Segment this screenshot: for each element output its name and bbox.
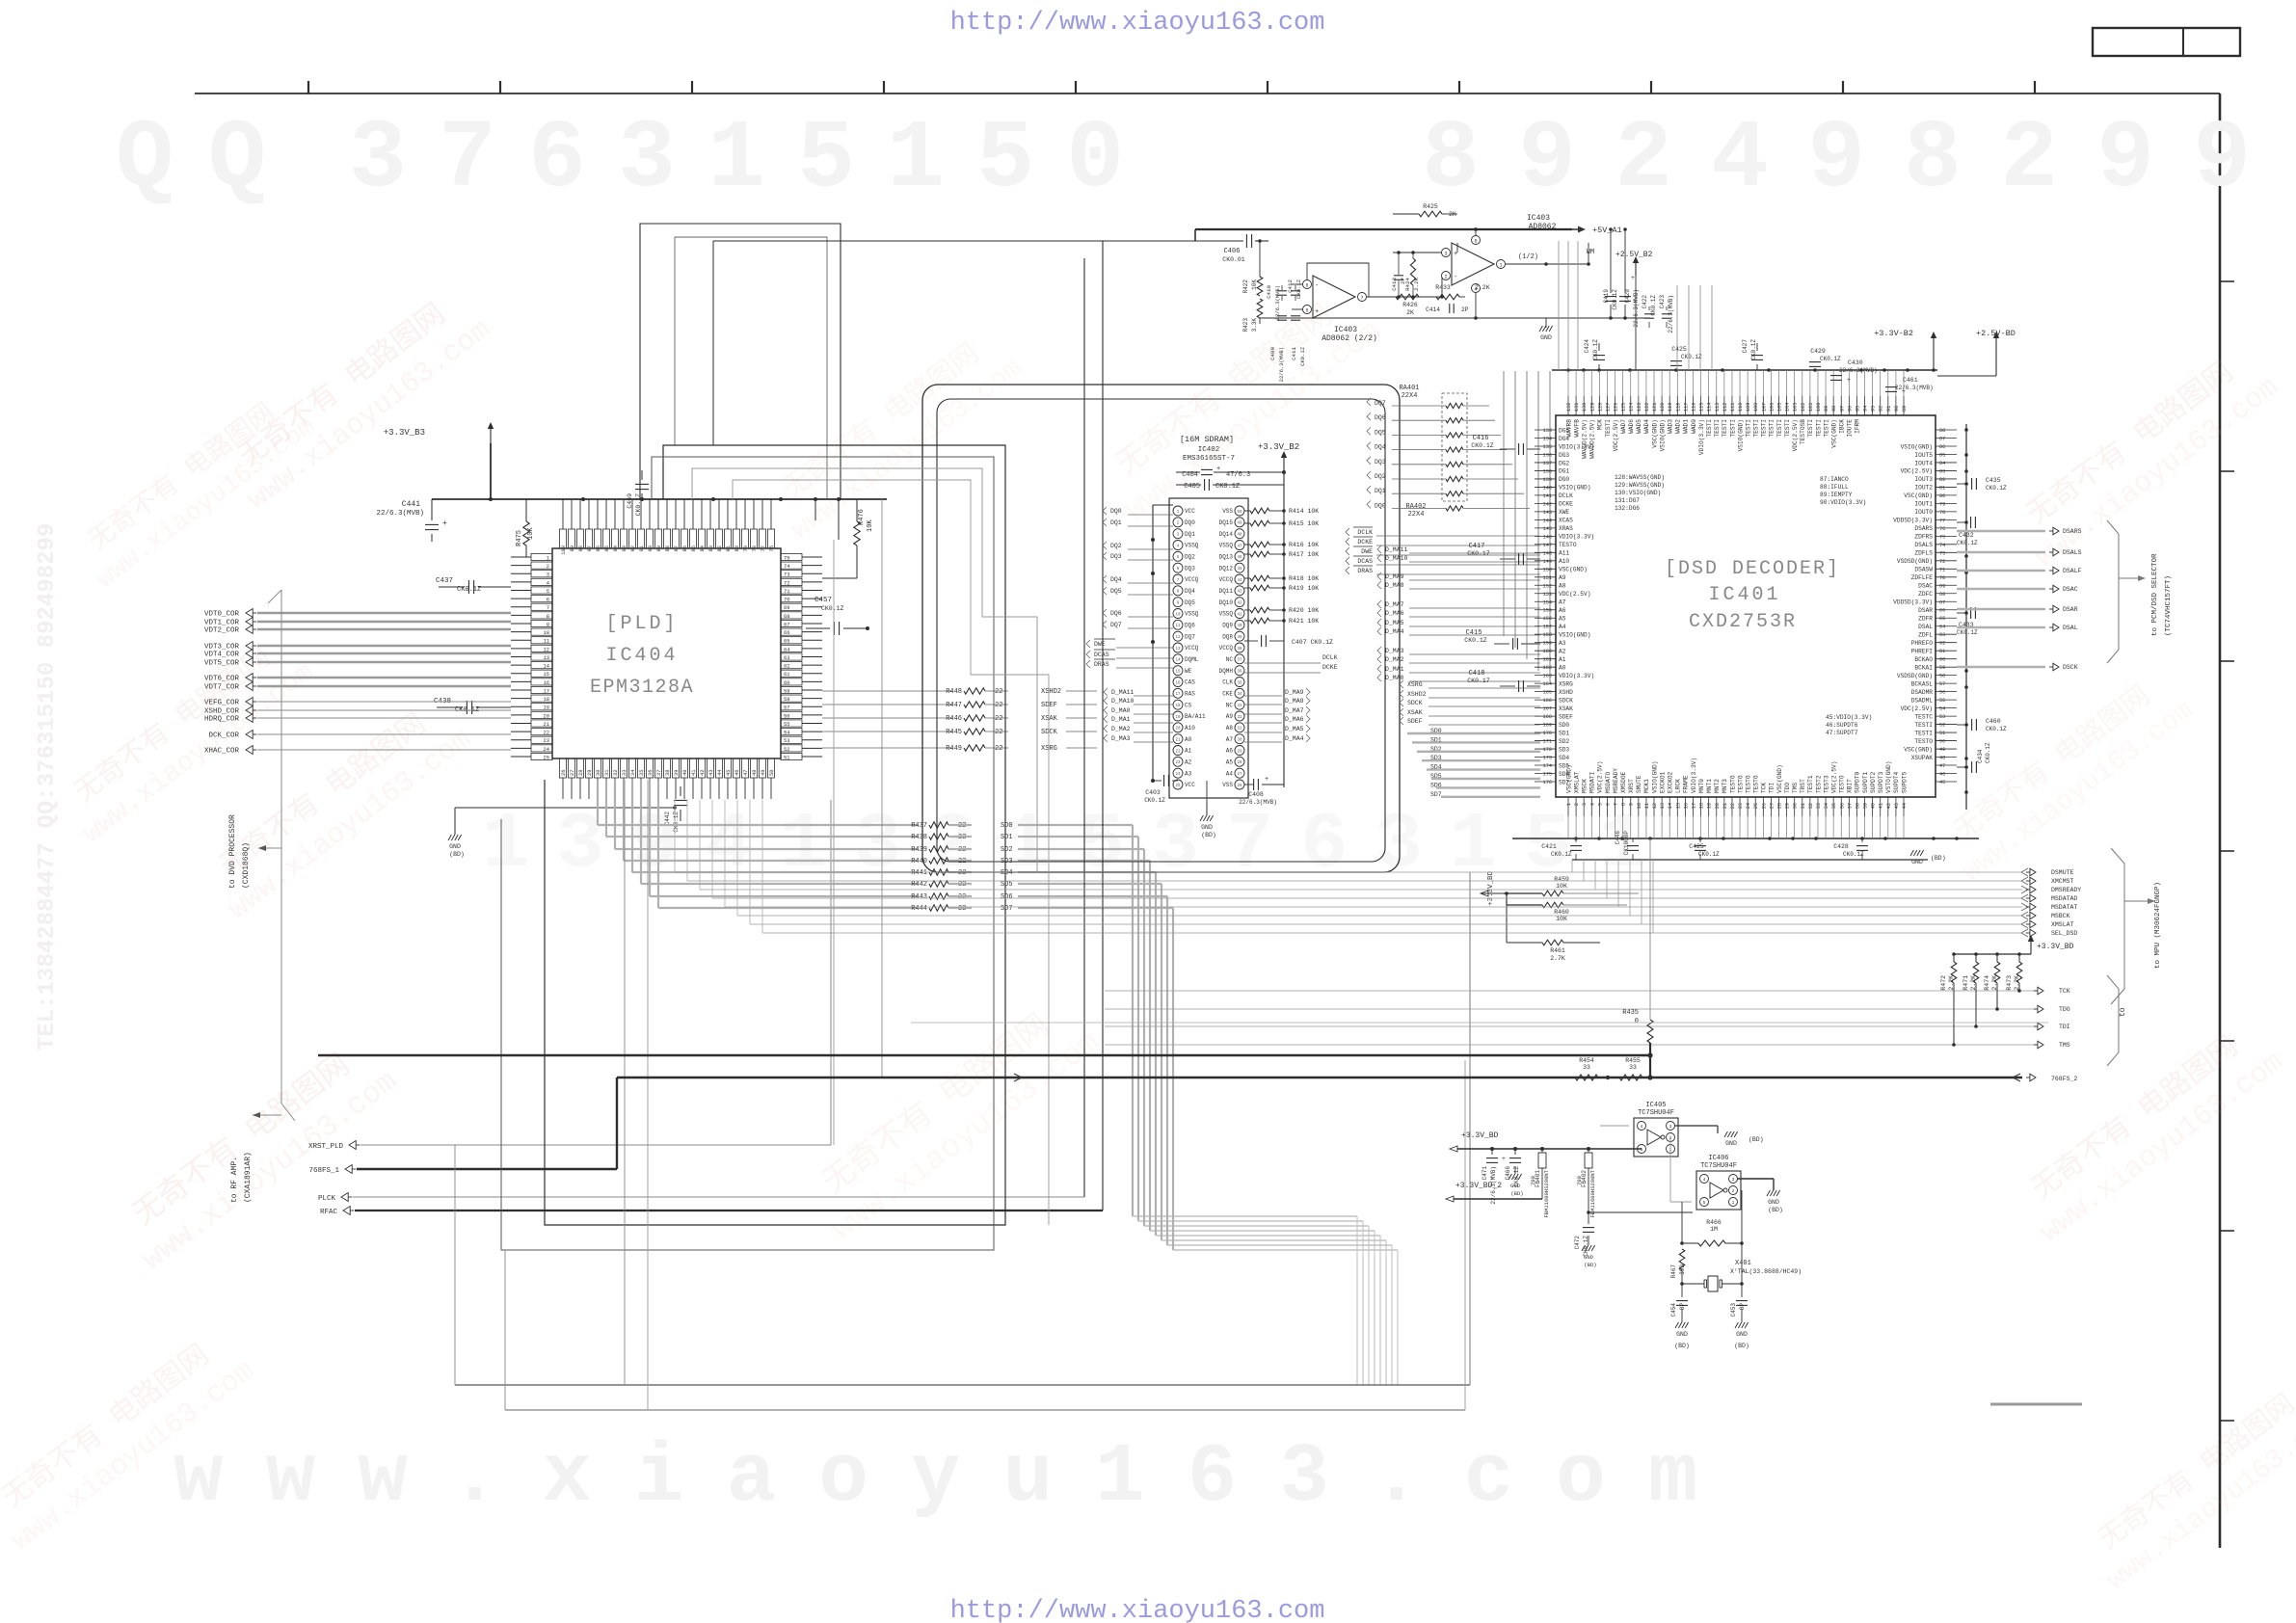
svg-text:R439: R439 — [911, 846, 927, 854]
svg-text:DG2: DG2 — [1559, 460, 1569, 466]
svg-text:VDT4_COR: VDT4_COR — [204, 652, 240, 659]
svg-text:DSARS: DSARS — [2063, 528, 2082, 535]
svg-text:30: 30 — [1237, 738, 1242, 742]
svg-text:TCK: TCK — [2059, 988, 2070, 995]
svg-text:115: 115 — [1699, 403, 1705, 412]
svg-text:VSC(GND): VSC(GND) — [1651, 419, 1658, 448]
svg-text:A0: A0 — [1559, 664, 1566, 671]
svg-text:128: 128 — [1597, 403, 1603, 412]
svg-text:51: 51 — [784, 755, 789, 760]
svg-text:113: 113 — [1715, 403, 1721, 412]
svg-text:85: 85 — [1939, 452, 1945, 458]
svg-text:99: 99 — [570, 545, 575, 551]
svg-text:159: 159 — [1543, 641, 1552, 647]
svg-text:21: 21 — [1722, 803, 1728, 809]
svg-text:TDO: TDO — [1784, 783, 1791, 793]
capacitor C460 — [1957, 724, 1968, 726]
svg-text:RA402: RA402 — [1405, 503, 1426, 511]
svg-text:44: 44 — [717, 770, 723, 776]
node DSAR output — [1957, 608, 2045, 611]
svg-text:WAD3: WAD3 — [1668, 419, 1674, 434]
svg-text:CK0.1Z: CK0.1Z — [1986, 485, 2007, 492]
svg-text:2: 2 — [1574, 803, 1580, 806]
svg-text:A10: A10 — [1559, 558, 1569, 565]
svg-text:XMSDOE: XMSDOE — [1620, 771, 1627, 793]
node XMSLAT (to MPU) — [750, 923, 2022, 925]
svg-text:7: 7 — [547, 605, 549, 611]
svg-text:VSSQ: VSSQ — [1185, 543, 1199, 549]
svg-text:4: 4 — [1703, 1177, 1706, 1183]
svg-text:RA401: RA401 — [1399, 385, 1419, 392]
svg-text:65: 65 — [784, 639, 789, 645]
svg-text:69: 69 — [784, 605, 789, 611]
svg-text:28: 28 — [578, 770, 584, 776]
svg-text:35: 35 — [639, 770, 645, 776]
svg-text:DQ6: DQ6 — [1185, 623, 1195, 629]
svg-text:HDRQ_COR: HDRQ_COR — [204, 716, 240, 724]
svg-text:2.2K: 2.2K — [1475, 284, 1490, 291]
svg-text:96: 96 — [596, 545, 601, 551]
svg-text:R435: R435 — [1622, 1009, 1639, 1017]
svg-text:C410: C410 — [1266, 284, 1272, 298]
svg-text:C435: C435 — [1986, 477, 2001, 484]
svg-text:TEST3: TEST3 — [1823, 775, 1829, 793]
svg-text:DQ0: DQ0 — [1185, 519, 1195, 526]
svg-text:R414 10K: R414 10K — [1289, 508, 1319, 515]
svg-text:24: 24 — [544, 747, 549, 753]
wire op-amp out to WM — [1588, 264, 1589, 370]
svg-text:A6: A6 — [1226, 748, 1234, 755]
svg-text:TRST: TRST — [1800, 779, 1806, 793]
svg-text:GND: GND — [1725, 1140, 1737, 1147]
svg-text:XSAK: XSAK — [1041, 715, 1058, 723]
svg-text:26: 26 — [561, 770, 567, 776]
svg-text:WAVDD(2.5V): WAVDD(2.5V) — [1581, 419, 1588, 459]
svg-text:138: 138 — [1543, 468, 1552, 474]
svg-text:TESTI: TESTI — [1722, 419, 1728, 438]
svg-text:A2: A2 — [1185, 759, 1192, 766]
svg-text:48: 48 — [1237, 533, 1242, 537]
wire op-amp gnd rail — [1260, 317, 1650, 319]
svg-text:90:VDIO(3.3V): 90:VDIO(3.3V) — [1820, 499, 1866, 506]
svg-text:SD6: SD6 — [1001, 893, 1013, 901]
svg-text:D_MA10: D_MA10 — [1385, 555, 1408, 562]
svg-text:TESTO: TESTO — [1914, 738, 1933, 745]
svg-text:GND: GND — [1911, 859, 1923, 865]
svg-text:36: 36 — [648, 770, 654, 776]
svg-text:WAD5: WAD5 — [1636, 419, 1642, 434]
svg-text:VDT3_COR: VDT3_COR — [204, 644, 240, 652]
svg-text:FRAME: FRAME — [1683, 775, 1690, 793]
svg-text:+: + — [1847, 377, 1851, 384]
node TMS (JTAG) — [1105, 1044, 2036, 1046]
IC IC401 CXD2753R [DSD DECODER] — [1556, 415, 1936, 797]
svg-text:DCKE: DCKE — [1357, 539, 1373, 545]
svg-text:C427: C427 — [1742, 339, 1749, 354]
svg-text:FBMJ1608HS280NT: FBMJ1608HS280NT — [1543, 1169, 1550, 1217]
svg-text:RAS: RAS — [1185, 691, 1195, 698]
svg-text:97: 97 — [587, 545, 593, 551]
svg-text:[DSD DECODER]: [DSD DECODER] — [1665, 558, 1840, 580]
svg-text:DQ6: DQ6 — [1110, 610, 1122, 617]
svg-text:CK0.1Z: CK0.1Z — [1985, 742, 1991, 763]
svg-text:DSADMR: DSADMR — [1911, 689, 1934, 696]
svg-text:8P: 8P — [1739, 1303, 1746, 1311]
title block — [2093, 28, 2240, 56]
svg-text:VDT0_COR: VDT0_COR — [204, 611, 240, 619]
svg-text:152: 152 — [1543, 583, 1552, 589]
svg-text:59: 59 — [1939, 665, 1945, 671]
capacitor C435 — [1957, 483, 1968, 485]
resistor R442 22 (SD5) — [641, 883, 918, 885]
svg-text:26: 26 — [1761, 803, 1767, 809]
svg-text:BCKAO: BCKAO — [1914, 656, 1933, 663]
svg-text:CK0.1Z: CK0.1Z — [1843, 851, 1864, 858]
svg-text:98: 98 — [578, 545, 584, 551]
svg-text:118: 118 — [1675, 403, 1681, 412]
svg-text:22: 22 — [995, 729, 1002, 736]
capacitor C434 — [1957, 766, 1968, 768]
svg-text:10K: 10K — [1556, 916, 1567, 922]
svg-text:46: 46 — [1237, 556, 1242, 560]
svg-text:XSHD: XSHD — [1559, 689, 1573, 696]
svg-text:8: 8 — [547, 614, 549, 620]
svg-text:26: 26 — [1237, 785, 1242, 788]
svg-text:32: 32 — [1237, 716, 1242, 720]
svg-text:C424: C424 — [1584, 339, 1590, 354]
svg-text:55: 55 — [784, 722, 789, 728]
svg-text:R445: R445 — [946, 729, 962, 736]
svg-text:TESTI: TESTI — [1815, 419, 1822, 438]
svg-text:CS: CS — [1185, 702, 1192, 708]
svg-text:85: 85 — [691, 545, 697, 551]
svg-text:90: 90 — [1894, 406, 1900, 412]
svg-text:22X4: 22X4 — [1402, 392, 1418, 400]
svg-text:WAVRB: WAVRB — [1565, 419, 1572, 438]
svg-text:D_MA1: D_MA1 — [1111, 716, 1131, 723]
resistor R416 10K — [1244, 544, 1250, 545]
svg-text:44: 44 — [1902, 803, 1908, 809]
svg-text:MSDATO: MSDATO — [1605, 771, 1612, 793]
svg-text:R418 10K: R418 10K — [1289, 575, 1319, 582]
svg-text:32: 32 — [1808, 803, 1814, 809]
IC IC402 EMS36165ST-7 [16M SDRAM] — [1169, 498, 1248, 798]
svg-text:146: 146 — [1543, 534, 1552, 540]
svg-text:TDI: TDI — [2059, 1024, 2070, 1030]
svg-text:43: 43 — [708, 770, 714, 776]
svg-text:SD7: SD7 — [1430, 791, 1442, 798]
svg-text:+2.5V_B2: +2.5V_B2 — [1615, 251, 1653, 259]
svg-text:R415 10K: R415 10K — [1289, 520, 1319, 527]
svg-text:VCC: VCC — [1185, 782, 1195, 788]
svg-text:C460: C460 — [1986, 718, 2001, 725]
svg-text:C442: C442 — [664, 811, 671, 826]
node MSDATAT (to MPU) — [725, 906, 2022, 908]
svg-text:54: 54 — [784, 731, 789, 736]
wire IC406 input feedback — [1692, 1206, 1694, 1212]
svg-text:30: 30 — [1793, 803, 1799, 809]
svg-text:MSBCK: MSBCK — [2051, 913, 2070, 919]
svg-text:WAD6: WAD6 — [1628, 419, 1635, 434]
svg-text:WAD7: WAD7 — [1620, 419, 1627, 434]
svg-text:58: 58 — [784, 697, 789, 703]
svg-text:87: 87 — [674, 545, 680, 551]
svg-text:(BD): (BD) — [1584, 1262, 1596, 1268]
svg-text:R447: R447 — [946, 702, 962, 709]
svg-text:SDEF: SDEF — [1407, 718, 1423, 725]
svg-text:CK0.17: CK0.17 — [1467, 550, 1490, 557]
svg-text:8: 8 — [1621, 803, 1627, 806]
svg-text:VDT1_COR: VDT1_COR — [204, 620, 240, 627]
svg-text:(BD): (BD) — [1201, 832, 1216, 838]
svg-text:42: 42 — [1886, 803, 1892, 809]
svg-text:CK0.1Z: CK0.1Z — [1464, 637, 1487, 644]
svg-text:13: 13 — [1660, 803, 1666, 809]
svg-text:SD0: SD0 — [1001, 822, 1013, 830]
svg-text:33: 33 — [622, 770, 627, 776]
svg-text:(BD): (BD) — [449, 851, 465, 858]
svg-text:R425: R425 — [1423, 203, 1438, 210]
svg-text:R466: R466 — [1706, 1219, 1722, 1226]
svg-text:DQML: DQML — [1185, 656, 1199, 663]
svg-text:109: 109 — [1746, 403, 1751, 412]
svg-text:D_MA2: D_MA2 — [1385, 656, 1404, 663]
node SEL_DSD (to MPU) — [762, 932, 2022, 934]
svg-text:126: 126 — [1614, 403, 1619, 412]
svg-text:A4: A4 — [1559, 624, 1566, 630]
svg-text:DCK_COR: DCK_COR — [208, 732, 239, 740]
node DSAC output — [1957, 588, 2045, 591]
svg-text:53: 53 — [784, 738, 789, 744]
svg-text:C472: C472 — [1574, 1236, 1581, 1250]
svg-text:167: 167 — [1543, 706, 1552, 712]
svg-text:DQ4: DQ4 — [1110, 576, 1122, 583]
node TDI (JTAG) — [1105, 1025, 2036, 1027]
svg-text:51: 51 — [1939, 731, 1945, 736]
svg-text:VDC(2.5V): VDC(2.5V) — [1613, 419, 1619, 451]
svg-text:SD1: SD1 — [1559, 730, 1569, 736]
node MSDATAD (to MPU) — [712, 897, 2022, 899]
svg-text:2K: 2K — [1406, 309, 1414, 316]
svg-text:R443: R443 — [911, 893, 927, 901]
svg-text:DSARS: DSARS — [1914, 525, 1933, 532]
svg-text:77: 77 — [1939, 518, 1945, 523]
svg-text:VSC(GND): VSC(GND) — [1559, 567, 1588, 573]
svg-text:110: 110 — [1738, 403, 1744, 412]
svg-text:22/6.3(MVB): 22/6.3(MVB) — [1839, 367, 1878, 374]
svg-text:R423: R423 — [1242, 318, 1249, 333]
svg-text:XSHD2: XSHD2 — [1041, 688, 1061, 696]
svg-text:SDCK: SDCK — [1407, 700, 1423, 706]
svg-text:C406: C406 — [1224, 248, 1241, 255]
svg-text:768FS_1: 768FS_1 — [308, 1167, 339, 1175]
svg-text:76: 76 — [1939, 526, 1945, 532]
svg-text:GND: GND — [1736, 1331, 1748, 1338]
svg-text:22X4: 22X4 — [1408, 511, 1425, 519]
svg-text:R441: R441 — [911, 869, 927, 877]
svg-text:SUPDT2: SUPDT2 — [1870, 771, 1877, 793]
wire IC401 right rail — [1965, 424, 1967, 810]
svg-text:11: 11 — [544, 639, 549, 645]
svg-text:R438: R438 — [911, 834, 927, 841]
svg-text:84: 84 — [1939, 461, 1945, 466]
svg-text:VSIO(GND): VSIO(GND) — [1559, 632, 1590, 639]
svg-text:DQMH: DQMH — [1219, 668, 1234, 675]
svg-text:D_MA11: D_MA11 — [1385, 546, 1408, 553]
wire vertical bundle left of IC401 — [1503, 371, 1505, 636]
svg-text:TESTO: TESTO — [1737, 775, 1744, 793]
svg-text:90: 90 — [648, 545, 654, 551]
svg-text:53: 53 — [1939, 714, 1945, 720]
capacitor C408 22/6.3(MVB) — [1244, 784, 1253, 785]
svg-text:22: 22 — [1730, 803, 1736, 809]
svg-text:DQ11: DQ11 — [1219, 588, 1234, 595]
svg-text:R475: R475 — [516, 530, 523, 546]
svg-text:77: 77 — [761, 545, 766, 551]
svg-text:1: 1 — [547, 555, 549, 561]
svg-text:83: 83 — [708, 545, 714, 551]
svg-text:TESTI: TESTI — [1745, 419, 1751, 438]
svg-text:129: 129 — [1589, 403, 1595, 412]
svg-text:R460: R460 — [1554, 909, 1569, 916]
svg-text:12: 12 — [544, 647, 549, 652]
svg-text:68: 68 — [1939, 592, 1945, 598]
resistor R443 22 (SD6) — [650, 895, 918, 897]
svg-text:87:IANCO: 87:IANCO — [1820, 476, 1849, 483]
svg-text:153: 153 — [1543, 592, 1552, 598]
svg-text:91: 91 — [639, 545, 645, 551]
svg-text:R474: R474 — [1984, 975, 1990, 991]
svg-text:XRAS: XRAS — [1559, 525, 1573, 532]
svg-text:91: 91 — [1886, 406, 1892, 412]
svg-text:(BD): (BD) — [1510, 1190, 1523, 1197]
svg-text:83: 83 — [1939, 468, 1945, 474]
svg-text:148: 148 — [1543, 550, 1552, 556]
resistor R415 10K — [1244, 522, 1250, 524]
svg-text:D_MA4: D_MA4 — [1385, 628, 1404, 635]
svg-text:R426: R426 — [1402, 302, 1418, 308]
svg-text:XWE: XWE — [1559, 509, 1569, 516]
svg-text:1: 1 — [1566, 803, 1572, 806]
svg-text:R461: R461 — [1550, 947, 1565, 954]
svg-text:IC403: IC403 — [1527, 214, 1550, 223]
svg-text:D_MA7: D_MA7 — [1385, 601, 1404, 608]
svg-text:127: 127 — [1605, 403, 1611, 412]
svg-text:X401: X401 — [1735, 1260, 1751, 1267]
svg-text:64: 64 — [784, 647, 789, 652]
svg-text:DQ9: DQ9 — [1222, 623, 1233, 629]
svg-text:C405: C405 — [1184, 483, 1200, 491]
svg-text:R459: R459 — [1554, 876, 1569, 883]
svg-text:170: 170 — [1543, 731, 1552, 736]
svg-text:39: 39 — [1863, 803, 1869, 809]
svg-text:TESTI: TESTI — [1784, 419, 1791, 438]
svg-text:(BD): (BD) — [1931, 855, 1946, 862]
svg-text:38: 38 — [1237, 648, 1242, 652]
svg-text:XSHD2: XSHD2 — [1407, 691, 1427, 698]
svg-text:SD2: SD2 — [1001, 846, 1013, 854]
svg-text:86: 86 — [682, 545, 688, 551]
svg-text:D_MA7: D_MA7 — [1285, 707, 1304, 714]
svg-text:14: 14 — [544, 664, 549, 670]
svg-text:XMSLAT: XMSLAT — [1573, 771, 1580, 793]
svg-text:DSAL: DSAL — [2063, 625, 2078, 631]
svg-text:D_MA0: D_MA0 — [1385, 675, 1404, 681]
svg-text:ZDFRS: ZDFRS — [1914, 534, 1933, 541]
svg-text:42: 42 — [1237, 601, 1242, 605]
svg-text:DSADML: DSADML — [1911, 697, 1934, 704]
svg-text:22/6.3(MVB): 22/6.3(MVB) — [1490, 1166, 1497, 1205]
svg-text:50: 50 — [1939, 739, 1945, 745]
svg-text:VCC: VCC — [1185, 508, 1195, 515]
svg-text:D_MA3: D_MA3 — [1385, 648, 1404, 654]
svg-text:47: 47 — [1939, 763, 1945, 769]
svg-text:VSC(GND): VSC(GND) — [1830, 419, 1837, 448]
svg-text:CK0.1Z: CK0.1Z — [1592, 339, 1599, 360]
svg-text:http://www.xiaoyu163.com: http://www.xiaoyu163.com — [950, 9, 1325, 38]
svg-text:GND: GND — [1510, 1183, 1521, 1189]
svg-text:A7: A7 — [1226, 736, 1234, 743]
svg-text:DQ6: DQ6 — [1375, 414, 1386, 421]
svg-text:TDI: TDI — [1769, 783, 1775, 793]
svg-text:GND: GND — [1201, 824, 1213, 831]
svg-text:CK1000P: CK1000P — [1623, 831, 1630, 856]
svg-text:160: 160 — [1543, 649, 1552, 654]
svg-text:VSS: VSS — [1222, 782, 1233, 788]
svg-text:CK0.1Z: CK0.1Z — [1750, 339, 1757, 360]
svg-text:R433: R433 — [1435, 284, 1451, 291]
svg-text:D_MA4: D_MA4 — [1285, 735, 1304, 742]
svg-text:139: 139 — [1543, 477, 1552, 483]
svg-text:XSHD_COR: XSHD_COR — [204, 708, 240, 716]
resistor R447 22 (SDEF) — [822, 704, 952, 705]
resistor R471 2.2K — [1975, 954, 1977, 962]
svg-text:WAVDD(2.5V): WAVDD(2.5V) — [1589, 419, 1596, 459]
svg-text:D_MA9: D_MA9 — [1385, 573, 1404, 580]
svg-text:31: 31 — [604, 770, 610, 776]
resistor R420 10K — [1244, 609, 1250, 611]
svg-text:52: 52 — [784, 747, 789, 753]
svg-text:[PLD]: [PLD] — [605, 613, 678, 635]
svg-text:+3.3V_B2: +3.3V_B2 — [1258, 442, 1299, 452]
svg-text:27: 27 — [1237, 773, 1242, 777]
svg-text:75: 75 — [1939, 534, 1945, 540]
svg-text:AD8062 (2/2): AD8062 (2/2) — [1322, 334, 1377, 343]
wire verticals opamp to IC401 — [1558, 241, 1560, 370]
svg-text:C403: C403 — [1145, 789, 1161, 796]
svg-text:MSDATAD: MSDATAD — [2051, 895, 2077, 902]
node DSAL output — [1957, 626, 2045, 629]
svg-text:6: 6 — [1605, 803, 1611, 806]
svg-text:XHAC_COR: XHAC_COR — [204, 748, 240, 756]
svg-text:5: 5 — [1597, 803, 1603, 806]
svg-text:VDT7_COR: VDT7_COR — [204, 684, 240, 692]
svg-text:147: 147 — [1543, 543, 1552, 548]
svg-text:DCLK: DCLK — [1559, 492, 1573, 499]
svg-text:134: 134 — [1543, 436, 1552, 441]
svg-text:16: 16 — [1683, 803, 1689, 809]
svg-text:D_MA8: D_MA8 — [1285, 698, 1304, 705]
svg-text:10: 10 — [1637, 803, 1642, 809]
svg-text:73: 73 — [1939, 550, 1945, 556]
svg-text:IC403: IC403 — [1334, 326, 1357, 334]
svg-text:2.7K: 2.7K — [1550, 955, 1565, 962]
svg-text:25: 25 — [544, 755, 549, 760]
svg-text:D_MA6: D_MA6 — [1285, 716, 1304, 723]
svg-text:-: - — [1315, 282, 1319, 290]
svg-text:R448: R448 — [946, 688, 962, 696]
svg-text:CKE: CKE — [1222, 691, 1233, 698]
